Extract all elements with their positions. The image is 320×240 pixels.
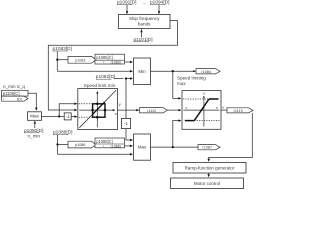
svg-text:Y: Y	[222, 105, 225, 110]
svg-text:(1086): (1086)	[111, 144, 121, 148]
svg-text:Max: Max	[30, 113, 40, 118]
wire p1083 down	[56, 51, 58, 71]
junction p1082	[125, 77, 127, 79]
wire -1 to speed limit min lower	[71, 115, 75, 117]
wire p1082 to Min	[114, 78, 124, 80]
bold band square	[93, 104, 105, 117]
connector banner [D]	[2, 96, 29, 101]
dashed n_min upper	[79, 103, 93, 105]
block ramp-function generator	[173, 162, 246, 173]
svg-text:Ramp-function generator: Ramp-function generator	[185, 166, 235, 171]
block Max limit	[134, 134, 151, 160]
bold saturation lower	[185, 120, 195, 122]
connector p1086	[68, 141, 96, 148]
bold diagonal in band	[93, 102, 105, 114]
svg-text:Max: Max	[138, 145, 147, 150]
svg-text:[D]: [D]	[17, 97, 22, 101]
wire p1086 to Max	[58, 153, 131, 155]
svg-text:x: x	[115, 111, 117, 116]
arrow p1080 into Max	[34, 121, 37, 124]
block -1 for p1082	[121, 118, 130, 128]
svg-text:Speed limiting: Speed limiting	[177, 76, 206, 81]
wire to p1086 flag	[58, 144, 69, 146]
x axis	[184, 109, 220, 111]
arrow p1101 into skip block	[140, 29, 143, 32]
block -1 lower	[64, 113, 71, 120]
wire p1088 to Max	[125, 145, 131, 147]
wire p1083 to Min	[57, 70, 131, 72]
svg-text:p1085[C]: p1085[C]	[96, 55, 113, 60]
connector p1106[C]	[2, 90, 29, 96]
block Max n_min	[28, 112, 42, 121]
svg-text:Y: Y	[203, 91, 206, 96]
connector p1083	[68, 56, 96, 63]
block motor control	[171, 178, 244, 189]
wire to ramp function generator	[209, 113, 253, 161]
wire speed limit min out	[118, 109, 137, 111]
junction n_min branch	[58, 115, 60, 117]
block skip frequency bands	[119, 14, 171, 28]
wire p1085 to Min	[125, 61, 131, 63]
connector r1087	[198, 145, 220, 150]
svg-text:bands: bands	[138, 22, 151, 27]
svg-text:p1086: p1086	[75, 143, 86, 147]
connector p1085[C]	[95, 54, 125, 64]
svg-text:r1087: r1087	[202, 146, 212, 150]
wire Max out r1087	[151, 146, 198, 148]
svg-text:r1112: r1112	[147, 109, 156, 113]
svg-text:Min: Min	[138, 69, 146, 74]
junction r1084	[172, 70, 174, 72]
svg-text:p1106[C]: p1106[C]	[3, 91, 20, 96]
y axis	[203, 97, 205, 127]
svg-text:...: ...	[143, 0, 147, 5]
svg-text:Skip frequency: Skip frequency	[129, 16, 160, 21]
wire Min out r1084	[151, 70, 196, 72]
dashed n_min lower	[79, 116, 93, 118]
wire skip output feedback to speed limit min	[48, 21, 177, 110]
wire r1087 to speed limiting lower	[173, 121, 179, 148]
connector r1112	[140, 108, 168, 113]
arrow to motor control	[207, 174, 210, 177]
wire to p1083 flag	[57, 59, 68, 61]
wire speed limiting out	[221, 109, 227, 111]
junction r1087	[172, 146, 174, 148]
wire p1094 to skip block	[158, 5, 160, 13]
block Min	[134, 58, 151, 85]
svg-text:n_min: n_min	[28, 133, 41, 138]
connector r1119	[227, 108, 253, 113]
svg-text:Motor control: Motor control	[194, 181, 220, 186]
svg-text:-1: -1	[66, 114, 70, 119]
svg-text:p1083: p1083	[75, 58, 86, 62]
bold saturation diagonal	[194, 99, 209, 121]
dotted upper limit	[183, 98, 209, 100]
svg-text:max: max	[177, 81, 186, 86]
connector r1084	[196, 69, 220, 74]
x axis	[79, 109, 113, 111]
wire r1084 to speed limiting upper	[173, 71, 179, 98]
wire n_min to speed limit min upper	[59, 104, 75, 117]
svg-text:r1084: r1084	[201, 70, 211, 74]
wire p1082 down	[125, 79, 127, 118]
svg-text:n_min S_q: n_min S_q	[3, 84, 25, 89]
connector p1088[C]	[95, 138, 125, 148]
dotted lower limit	[194, 120, 220, 122]
svg-text:y: y	[119, 101, 121, 106]
wire p1106 to Max	[28, 93, 36, 109]
svg-text:x: x	[216, 106, 218, 110]
y axis	[96, 92, 98, 127]
diagonal characteristic	[79, 90, 116, 128]
bold saturation upper	[209, 98, 219, 100]
block speed limiting	[182, 91, 221, 130]
svg-text:x: x	[185, 106, 187, 110]
junction p1086	[56, 143, 58, 145]
wire Max out	[42, 115, 64, 117]
wire r1112 to speed limiting	[167, 109, 179, 111]
wire p1086 down	[57, 135, 59, 154]
wire -p1082 to Max	[126, 129, 131, 140]
svg-text:(1083): (1083)	[111, 61, 121, 65]
svg-text:p1088[C]: p1088[C]	[96, 139, 113, 144]
svg-text:r1119: r1119	[234, 109, 243, 113]
wire p1091 to skip block	[126, 5, 128, 13]
svg-text:Speed limit min: Speed limit min	[84, 83, 116, 88]
svg-text:-1: -1	[124, 121, 128, 126]
junction p1083	[56, 59, 58, 61]
